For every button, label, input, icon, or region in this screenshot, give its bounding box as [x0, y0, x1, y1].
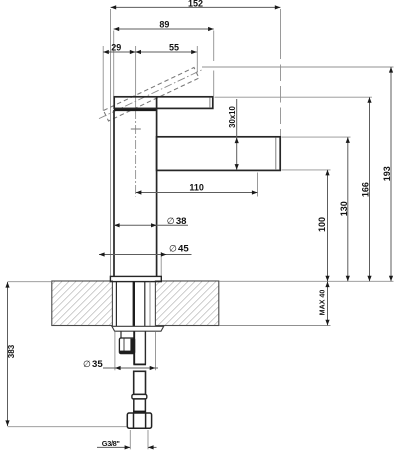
G3/8 connection nut: [127, 413, 151, 428]
svg-text:29: 29: [111, 42, 121, 52]
raised lever dashed outline: [99, 68, 203, 122]
dimension 100: [317, 170, 330, 281]
spout: [157, 137, 281, 171]
dimension MAX 40: [319, 282, 330, 326]
dimension diam 38: [114, 216, 188, 227]
G3/8 dimension: [97, 430, 157, 450]
countertop hatched slab right piece: [155, 281, 218, 326]
lever plate (closed position): [114, 97, 213, 109]
countertop hatched slab left piece: [52, 281, 113, 326]
mounting stud: [120, 331, 122, 338]
dimension 166: [361, 97, 372, 281]
svg-text:110: 110: [189, 183, 204, 193]
svg-text:30x10: 30x10: [228, 105, 237, 127]
washer plate under counter: [112, 326, 164, 331]
extension line x=213.7 (89 right, lever plate right edge): [213, 31, 215, 62]
hex backnut: [119, 338, 134, 354]
svg-text:100: 100: [317, 217, 327, 232]
svg-text:89: 89: [159, 19, 169, 29]
extension line x=113.7 (89 left, body/plate left edge): [113, 31, 115, 97]
flange: [110, 276, 161, 281]
dimension 193: [382, 67, 393, 281]
shank lines through countertop: [116, 282, 150, 327]
right side extension lines: [202, 67, 394, 326]
svg-text:152: 152: [188, 0, 203, 9]
dimension 89: [114, 19, 214, 31]
svg-text:383: 383: [7, 344, 16, 358]
extension line x=197.3 (55 right, to raised lever tip): [196, 46, 198, 72]
extension line x=280.5 (152 right, spout tip): [280, 9, 282, 59]
383 overall height dimension: [5, 282, 126, 427]
svg-text:193: 193: [382, 166, 392, 181]
extension line x=110.5 (152 / diam45 left): [110, 9, 112, 276]
upper supply tube piece: [133, 331, 146, 364]
svg-text:55: 55: [169, 42, 179, 52]
dimension 29 / 55 chained: [103, 42, 197, 54]
svg-text:166: 166: [361, 182, 371, 197]
svg-text:∅35: ∅35: [83, 359, 103, 370]
pivot centerline x=135.6 with cross: [131, 46, 141, 197]
dimension diam 45: [99, 244, 192, 257]
extension line x=161.2 (diam45 right flange edge): [160, 252, 162, 276]
lower supply tube: [132, 371, 147, 413]
dimension 110: [136, 183, 258, 195]
dimension 130: [339, 137, 350, 281]
diam 35 dimension: [83, 332, 158, 370]
svg-text:∅45: ∅45: [169, 244, 189, 255]
dimension 152: [111, 0, 281, 10]
extension line x=257.5 (110 right): [257, 173, 259, 197]
svg-text:∅38: ∅38: [167, 216, 187, 227]
30x10 dimension: [228, 99, 239, 170]
body column: [114, 97, 157, 277]
svg-text:130: 130: [339, 201, 349, 216]
svg-text:G3/8": G3/8": [102, 439, 121, 448]
svg-text:MAX 40: MAX 40: [319, 290, 327, 316]
extension line x=103.2 (29 left, to raised lever corner): [102, 46, 104, 111]
